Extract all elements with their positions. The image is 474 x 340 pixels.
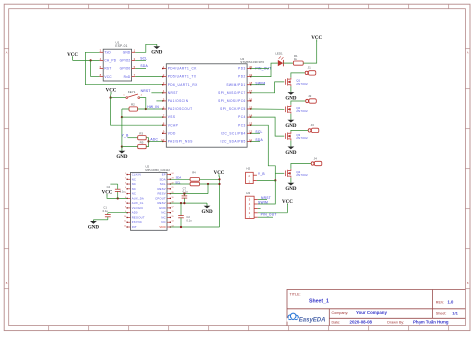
svg-text:PD2: PD2 <box>238 75 246 79</box>
svg-text:VDD: VDD <box>159 225 165 229</box>
svg-text:GND: GND <box>201 210 213 215</box>
svg-text:KEY1: KEY1 <box>128 90 136 94</box>
svg-text:8: 8 <box>125 206 126 208</box>
svg-text:0.1u: 0.1u <box>120 189 126 193</box>
svg-text:Y_B: Y_B <box>122 133 130 137</box>
svg-text:VCAP: VCAP <box>168 123 178 127</box>
svg-text:AUX_DA: AUX_DA <box>132 196 144 200</box>
svg-text:1/1: 1/1 <box>452 311 458 316</box>
svg-text:14: 14 <box>172 221 174 223</box>
svg-text:GND: GND <box>116 155 128 160</box>
svg-text:NC: NC <box>132 187 136 191</box>
svg-text:NC: NC <box>132 182 136 186</box>
svg-text:Sheet:: Sheet: <box>436 312 447 316</box>
svg-text:Phạm Tuấn Hưng: Phạm Tuấn Hưng <box>413 319 449 324</box>
svg-text:0.1u: 0.1u <box>103 209 109 213</box>
svg-text:SCL: SCL <box>140 57 147 61</box>
svg-text:GND: GND <box>285 124 297 129</box>
svg-text:VDD: VDD <box>168 131 176 135</box>
svg-text:MPU-6050_C24112: MPU-6050_C24112 <box>145 168 170 172</box>
svg-text:NC: NC <box>132 177 136 181</box>
svg-text:SWIM: SWIM <box>258 201 268 205</box>
svg-text:NC: NC <box>161 211 165 215</box>
svg-text:RESV: RESV <box>157 192 165 196</box>
svg-text:ADC: ADC <box>150 137 158 141</box>
svg-text:TITLE:: TITLE: <box>290 292 301 296</box>
svg-text:REV.: REV. <box>436 301 444 305</box>
svg-text:R3: R3 <box>139 132 143 136</box>
svg-text:J2: J2 <box>308 94 312 98</box>
svg-text:Date:: Date: <box>332 320 341 324</box>
svg-text:RESV: RESV <box>157 187 165 191</box>
svg-text:21: 21 <box>172 187 174 189</box>
svg-text:15: 15 <box>172 216 174 218</box>
svg-text:H3: H3 <box>246 191 250 195</box>
svg-text:INT: INT <box>132 225 137 229</box>
svg-text:VLOGIC: VLOGIC <box>132 206 144 210</box>
svg-text:SDA: SDA <box>160 177 166 181</box>
svg-text:NRST: NRST <box>168 91 178 95</box>
svg-text:RST: RST <box>104 67 111 71</box>
svg-text:Company:: Company: <box>332 311 349 315</box>
svg-text:GND: GND <box>88 225 100 230</box>
svg-text:Y_B: Y_B <box>258 172 266 176</box>
svg-text:PD3: PD3 <box>238 67 246 71</box>
svg-text:LED1: LED1 <box>275 51 283 55</box>
svg-text:SPI_SCK/PC5: SPI_SCK/PC5 <box>220 107 246 111</box>
svg-text:SCL: SCL <box>160 182 166 186</box>
svg-text:PD5/UART1_TX: PD5/UART1_TX <box>168 75 197 79</box>
svg-text:19: 19 <box>172 197 174 199</box>
svg-text:12: 12 <box>124 225 126 227</box>
svg-text:PA2/OSCOUT: PA2/OSCOUT <box>168 107 193 111</box>
svg-text:TxD: TxD <box>104 51 111 55</box>
svg-text:J4: J4 <box>314 156 318 160</box>
svg-text:5: 5 <box>125 192 126 194</box>
svg-text:VSS: VSS <box>168 115 176 119</box>
svg-text:Sheet_1: Sheet_1 <box>309 299 329 305</box>
svg-text:2N7002: 2N7002 <box>296 173 308 177</box>
svg-text:0.1u: 0.1u <box>186 218 192 222</box>
svg-text:NRST: NRST <box>141 89 151 93</box>
svg-text:2N7002: 2N7002 <box>296 136 308 140</box>
svg-text:11: 11 <box>124 221 126 223</box>
svg-text:2N7002: 2N7002 <box>296 82 308 86</box>
svg-text:7: 7 <box>125 202 126 204</box>
svg-text:SPI_MISO/PC7: SPI_MISO/PC7 <box>218 91 246 95</box>
svg-text:24: 24 <box>172 173 174 175</box>
svg-text:SPI_MOSI/PC6: SPI_MOSI/PC6 <box>218 99 246 103</box>
svg-text:0.1u: 0.1u <box>183 190 189 194</box>
svg-text:H2: H2 <box>246 166 250 170</box>
svg-text:R5: R5 <box>140 141 144 145</box>
svg-text:4: 4 <box>125 187 126 189</box>
svg-text:17: 17 <box>172 206 174 208</box>
svg-text:ESP-01: ESP-01 <box>115 44 127 48</box>
svg-text:RESV: RESV <box>157 201 165 205</box>
svg-text:SWIM/PD1: SWIM/PD1 <box>226 83 245 87</box>
svg-text:PC3: PC3 <box>238 123 246 127</box>
svg-text:REGOUT: REGOUT <box>132 215 145 219</box>
svg-text:GND: GND <box>123 51 131 55</box>
svg-text:NC: NC <box>161 220 165 224</box>
svg-text:GPIO2: GPIO2 <box>120 59 131 63</box>
svg-text:FSYNC: FSYNC <box>132 220 142 224</box>
svg-text:Your Company: Your Company <box>356 310 387 315</box>
svg-text:AD0: AD0 <box>132 211 138 215</box>
svg-text:CPOUT: CPOUT <box>155 196 166 200</box>
svg-text:C4: C4 <box>107 185 111 189</box>
svg-text:PC4: PC4 <box>238 115 246 119</box>
svg-text:PD6_UART1_RX: PD6_UART1_RX <box>168 83 198 87</box>
svg-text:1.0: 1.0 <box>448 300 454 305</box>
svg-text:GPIO0: GPIO0 <box>120 67 131 71</box>
svg-text:16: 16 <box>172 211 174 213</box>
svg-text:J1: J1 <box>308 66 312 70</box>
svg-text:J3: J3 <box>311 123 315 127</box>
svg-text:EP: EP <box>162 173 166 177</box>
svg-text:HW_IN: HW_IN <box>147 105 159 109</box>
svg-text:10: 10 <box>124 216 126 218</box>
svg-text:NRST: NRST <box>261 196 271 200</box>
svg-text:CH_PD: CH_PD <box>104 59 116 63</box>
svg-text:Drawn By:: Drawn By: <box>387 320 404 324</box>
svg-text:EasyEDA: EasyEDA <box>299 317 326 323</box>
svg-text:C1: C1 <box>103 206 107 210</box>
svg-text:2N7002: 2N7002 <box>296 109 308 113</box>
svg-text:NC: NC <box>161 215 165 219</box>
svg-text:I2C_SCL/PB4: I2C_SCL/PB4 <box>221 131 246 135</box>
svg-text:GND: GND <box>285 151 297 156</box>
svg-text:R2: R2 <box>131 103 135 107</box>
svg-text:PA1/OSCIN: PA1/OSCIN <box>168 99 189 103</box>
svg-text:3: 3 <box>125 182 126 184</box>
svg-text:NC: NC <box>132 192 136 196</box>
svg-text:SDA: SDA <box>140 64 148 68</box>
svg-text:RxD: RxD <box>124 75 131 79</box>
svg-text:2: 2 <box>125 178 126 180</box>
svg-text:1: 1 <box>125 173 126 175</box>
svg-text:PIN_OUT: PIN_OUT <box>261 213 277 217</box>
svg-text:GND: GND <box>159 206 166 210</box>
svg-text:PD4/UART1_CK: PD4/UART1_CK <box>168 67 198 71</box>
svg-text:VCC: VCC <box>104 75 112 79</box>
svg-text:PA3/SPI_NSS: PA3/SPI_NSS <box>168 140 193 144</box>
svg-text:GND: GND <box>285 187 297 192</box>
svg-text:2020-08-08: 2020-08-08 <box>350 319 373 324</box>
svg-text:AUX_CL: AUX_CL <box>132 201 144 205</box>
svg-text:R4: R4 <box>192 170 196 174</box>
svg-text:CLKIN: CLKIN <box>132 173 141 177</box>
svg-text:I2C_SDA/PB5: I2C_SDA/PB5 <box>221 140 246 144</box>
svg-text:GND: GND <box>151 51 163 56</box>
